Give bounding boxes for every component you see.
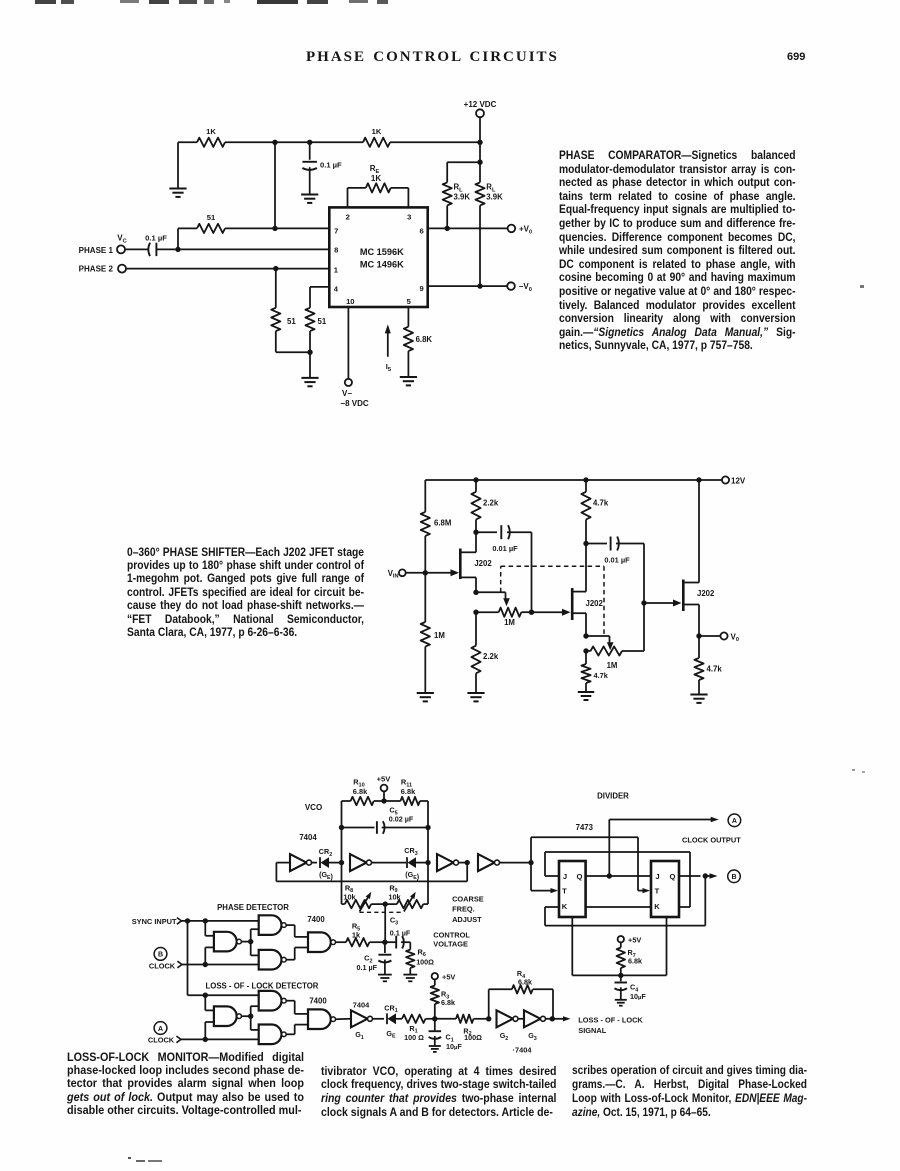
- svg-text:51: 51: [207, 213, 216, 222]
- svg-text:6.8k: 6.8k: [401, 787, 416, 796]
- svg-text:1K: 1K: [206, 127, 216, 136]
- svg-text:DIVIDER: DIVIDER: [597, 792, 629, 801]
- svg-text:A: A: [158, 1026, 163, 1033]
- svg-text:100Ω: 100Ω: [464, 1033, 482, 1042]
- svg-text:12V: 12V: [731, 476, 746, 485]
- svg-text:J202: J202: [697, 589, 715, 598]
- svg-text:(GE): (GE): [405, 870, 419, 881]
- svg-text:GE: GE: [386, 1029, 396, 1040]
- svg-text:V−: V−: [342, 389, 352, 398]
- svg-text:G3: G3: [528, 1031, 537, 1042]
- svg-text:VC: VC: [117, 234, 126, 245]
- svg-text:CLOCK: CLOCK: [149, 961, 176, 970]
- svg-text:6.8K: 6.8K: [416, 335, 433, 344]
- svg-text:LOSS - OF - LOCK: LOSS - OF - LOCK: [578, 1016, 643, 1025]
- svg-text:J: J: [563, 872, 567, 881]
- svg-text:7404: 7404: [299, 833, 317, 842]
- svg-text:0.1 µF: 0.1 µF: [320, 160, 342, 169]
- svg-text:PHASE 1: PHASE 1: [79, 246, 114, 255]
- svg-text:2.2k: 2.2k: [483, 499, 499, 508]
- svg-text:10k: 10k: [343, 892, 356, 901]
- svg-text:9: 9: [419, 284, 423, 293]
- svg-text:J202: J202: [586, 599, 604, 608]
- svg-text:PHASE 2: PHASE 2: [79, 265, 114, 274]
- svg-text:−V0: −V0: [519, 282, 532, 293]
- svg-text:K: K: [654, 902, 660, 911]
- svg-text:A: A: [732, 818, 737, 825]
- svg-text:51: 51: [287, 317, 296, 326]
- svg-text:7400: 7400: [309, 997, 327, 1006]
- svg-text:2: 2: [346, 213, 350, 222]
- svg-text:T: T: [655, 887, 660, 896]
- svg-text:+5V: +5V: [628, 935, 641, 944]
- svg-text:1: 1: [334, 266, 339, 275]
- svg-text:CR2: CR2: [319, 847, 332, 858]
- svg-text:CR1: CR1: [384, 1003, 397, 1014]
- svg-text:I5: I5: [386, 362, 392, 373]
- svg-text:SIGNAL: SIGNAL: [578, 1026, 606, 1035]
- svg-text:+5V: +5V: [442, 972, 455, 981]
- svg-text:+V0: +V0: [519, 225, 532, 236]
- svg-text:4.7k: 4.7k: [707, 665, 723, 674]
- svg-text:1K: 1K: [372, 127, 382, 136]
- svg-text:6.8k: 6.8k: [441, 998, 455, 1007]
- svg-text:51: 51: [318, 317, 327, 326]
- svg-text:K: K: [562, 902, 568, 911]
- svg-text:0.1 µF: 0.1 µF: [390, 928, 411, 937]
- svg-text:10: 10: [346, 297, 354, 306]
- svg-text:FREQ.: FREQ.: [452, 905, 475, 914]
- svg-text:ADJUST: ADJUST: [452, 915, 482, 924]
- svg-text:6.8k: 6.8k: [353, 787, 368, 796]
- svg-text:CLOCK: CLOCK: [148, 1035, 175, 1044]
- svg-text:100Ω: 100Ω: [416, 957, 434, 966]
- svg-text:0.1 µF: 0.1 µF: [356, 963, 377, 972]
- svg-text:6.8k: 6.8k: [628, 956, 642, 965]
- svg-text:10k: 10k: [388, 892, 401, 901]
- svg-text:CONTROL: CONTROL: [433, 930, 470, 939]
- svg-text:LOSS - OF - LOCK DETECTOR: LOSS - OF - LOCK DETECTOR: [206, 981, 319, 990]
- svg-text:G1: G1: [355, 1030, 364, 1041]
- svg-text:(GE): (GE): [319, 870, 333, 881]
- svg-text:7: 7: [334, 227, 338, 236]
- svg-text:+12 VDC: +12 VDC: [464, 100, 497, 109]
- svg-text:1k: 1k: [352, 931, 361, 940]
- svg-text:Q: Q: [577, 872, 583, 881]
- svg-text:T: T: [562, 887, 567, 896]
- svg-text:VCO: VCO: [305, 803, 322, 812]
- svg-text:4.7k: 4.7k: [593, 499, 609, 508]
- svg-text:Q: Q: [670, 872, 676, 881]
- svg-text:0.02 µF: 0.02 µF: [389, 815, 414, 824]
- svg-text:PHASE DETECTOR: PHASE DETECTOR: [217, 903, 289, 912]
- svg-text:5: 5: [407, 297, 412, 306]
- svg-text:MC 1496K: MC 1496K: [360, 260, 404, 270]
- svg-text:+5V: +5V: [377, 775, 392, 784]
- svg-text:1K: 1K: [371, 174, 381, 183]
- svg-text:J202: J202: [474, 559, 492, 568]
- svg-text:6: 6: [419, 227, 423, 236]
- svg-text:4: 4: [334, 285, 339, 294]
- svg-text:0.01 µF: 0.01 µF: [492, 544, 518, 553]
- svg-text:0.1 µF: 0.1 µF: [145, 234, 167, 243]
- svg-text:0.01 µF: 0.01 µF: [604, 556, 630, 565]
- svg-text:B: B: [158, 952, 163, 959]
- svg-text:G2: G2: [500, 1031, 509, 1042]
- svg-text:4.7k: 4.7k: [594, 671, 609, 680]
- svg-text:COARSE: COARSE: [452, 895, 484, 904]
- svg-text:1M: 1M: [434, 631, 445, 640]
- svg-text:6.8k: 6.8k: [518, 977, 532, 986]
- svg-text:CR3: CR3: [404, 846, 417, 857]
- svg-text:C3: C3: [390, 916, 398, 927]
- svg-text:7400: 7400: [307, 915, 325, 924]
- svg-text:3.9K: 3.9K: [454, 192, 471, 201]
- svg-text:J: J: [655, 872, 659, 881]
- svg-text:CLOCK OUTPUT: CLOCK OUTPUT: [682, 836, 741, 845]
- svg-text:10µF: 10µF: [630, 992, 646, 1001]
- svg-text:6.8M: 6.8M: [434, 519, 451, 528]
- svg-text:3: 3: [407, 213, 411, 222]
- svg-text:−8 VDC: −8 VDC: [340, 399, 368, 408]
- svg-text:B: B: [731, 874, 736, 881]
- svg-text:·7404: ·7404: [513, 1046, 533, 1055]
- svg-text:100 Ω: 100 Ω: [404, 1033, 424, 1042]
- svg-text:VIN: VIN: [388, 569, 399, 580]
- svg-text:2.2k: 2.2k: [483, 652, 499, 661]
- svg-text:1M: 1M: [504, 618, 515, 627]
- svg-text:MC 1596K: MC 1596K: [360, 247, 404, 257]
- svg-text:1M: 1M: [607, 661, 618, 670]
- svg-text:3.9K: 3.9K: [486, 192, 503, 201]
- svg-text:7473: 7473: [576, 823, 594, 832]
- svg-text:V0: V0: [731, 632, 739, 643]
- svg-text:8: 8: [334, 246, 338, 255]
- svg-text:10µF: 10µF: [446, 1042, 462, 1051]
- svg-text:SYNC INPUT: SYNC INPUT: [132, 917, 177, 926]
- svg-text:VOLTAGE: VOLTAGE: [433, 940, 468, 949]
- svg-text:7404: 7404: [353, 1000, 370, 1009]
